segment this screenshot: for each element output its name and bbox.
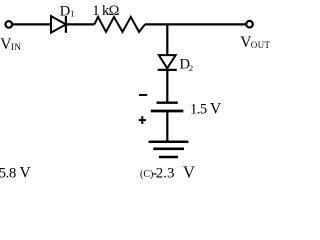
resistor R1 1 kOhm zigzag <box>94 17 145 32</box>
ground top line <box>149 141 189 144</box>
svg-text:V: V <box>20 164 32 181</box>
svg-text:5.8: 5.8 <box>0 165 16 181</box>
diode D1 triangle <box>51 16 66 33</box>
svg-text:OUT: OUT <box>251 40 271 50</box>
diode D1 cathode bar <box>65 16 67 33</box>
battery V1 short plate (negative) <box>157 101 178 103</box>
svg-text:D: D <box>60 4 70 20</box>
wire VIN terminal to D1 anode <box>13 23 52 25</box>
svg-text:1.5: 1.5 <box>190 102 207 118</box>
ground bottom line <box>159 156 178 159</box>
svg-text:1: 1 <box>70 8 74 18</box>
diode D2 cathode bar <box>158 69 177 71</box>
battery V1 long plate (positive) <box>151 110 184 113</box>
node junction wire down from output line <box>166 24 168 55</box>
svg-text:V: V <box>183 162 195 181</box>
battery minus sign <box>139 94 147 96</box>
svg-text:2.3: 2.3 <box>156 165 175 181</box>
svg-text:2: 2 <box>189 63 193 73</box>
diode D2 triangle <box>159 55 176 68</box>
svg-text:V: V <box>210 101 222 118</box>
wire D2 cathode to battery <box>166 70 168 103</box>
wire D1 cathode to resistor <box>66 23 95 25</box>
ground middle line <box>153 148 184 151</box>
wire resistor to VOUT terminal <box>145 23 246 25</box>
terminal VIN (open circle) <box>6 21 13 28</box>
svg-text:1 kΩ: 1 kΩ <box>92 3 119 19</box>
wire battery to ground <box>166 111 168 142</box>
battery plus sign <box>139 119 146 121</box>
terminal VOUT (open circle) <box>246 21 253 28</box>
svg-text:IN: IN <box>11 42 22 52</box>
